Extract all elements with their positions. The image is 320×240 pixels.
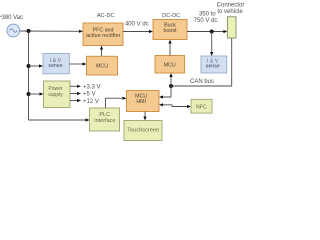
block NFC: [191, 99, 212, 113]
svg-text:active rectifier: active rectifier: [86, 33, 121, 39]
wire power supply +12V out: [70, 99, 81, 102]
svg-text:AC-DC: AC-DC: [97, 13, 115, 19]
block U2 MCU (AC-DC): [87, 56, 118, 75]
svg-text:400 V dc: 400 V dc: [125, 21, 149, 27]
svg-text:750 V dc: 750 V dc: [194, 18, 218, 24]
svg-text:CAN bus: CAN bus: [190, 79, 214, 85]
svg-text:supply: supply: [48, 92, 63, 98]
block S2 I & V sense (DC side): [201, 56, 227, 73]
wire power supply +3.3V out: [70, 85, 81, 88]
connector J1 to vehicle: [227, 17, 236, 38]
wire trunk to power supply left: [29, 92, 44, 95]
wire MCU HMI to touchscreen: [143, 112, 146, 121]
block PLC interface: [90, 108, 120, 131]
svg-text:MCU: MCU: [164, 62, 176, 68]
svg-text:MCU: MCU: [96, 63, 108, 69]
node C junction to power supply: [27, 92, 31, 96]
block U3 Buck boost: [153, 20, 187, 40]
wire PFC to buck boost: [123, 30, 153, 33]
AC source V1 380 Vac: [7, 24, 20, 37]
svg-text:to vehicle: to vehicle: [217, 9, 243, 15]
svg-text:+3.3 V: +3.3 V: [83, 85, 101, 91]
svg-text:sense: sense: [206, 63, 220, 69]
svg-text:+12 V: +12 V: [83, 99, 99, 105]
label Connector to vehicle: [217, 3, 245, 15]
wire connector to CAN bus: [171, 38, 232, 86]
wire CAN to MCU (DC-DC): [169, 73, 172, 86]
wire AC source to PFC: [20, 30, 83, 33]
svg-text:Connector: Connector: [217, 3, 245, 9]
svg-text:boost: boost: [164, 28, 177, 34]
node B junction to I&V sense: [27, 64, 31, 68]
block Touchscreen: [124, 121, 162, 141]
svg-text:+5 V: +5 V: [83, 92, 96, 98]
block U1 PFC and active rectifier: [83, 23, 123, 46]
node E CAN junction: [169, 84, 173, 88]
wire PLC interface to MCU HMI: [106, 97, 127, 108]
wire trunk to I&V sense left: [29, 64, 44, 67]
wire MCU to buck boost: [168, 40, 171, 56]
svg-text:DC-DC: DC-DC: [162, 13, 180, 19]
wire HV bus to I&V sense (DC side): [210, 32, 213, 57]
svg-text:350 to: 350 to: [199, 12, 216, 18]
wire MCU to PFC: [100, 46, 103, 57]
svg-text:HMI: HMI: [136, 99, 146, 105]
wire I&V sense to MCU: [69, 62, 86, 65]
block U4 MCU (DC-DC): [155, 56, 185, 74]
block U5 MCU HMI: [127, 91, 160, 112]
svg-text:sense: sense: [48, 63, 62, 69]
wire CAN to MCU HMI: [159, 86, 171, 99]
wire buck boost to connector: [187, 30, 227, 33]
svg-text:Touchscreen: Touchscreen: [127, 128, 159, 134]
label edge dash: [0, 16, 2, 17]
svg-text:NFC: NFC: [196, 104, 207, 110]
node D junction on HV bus: [210, 30, 214, 34]
block S1 I & V sense (AC side): [43, 54, 69, 74]
wire trunk to PLC interface: [29, 118, 90, 121]
wire MCU HMI to NFC (bidirectional): [159, 103, 191, 108]
label 350 to 750 V dc: [194, 12, 218, 24]
node A junction at AC output: [27, 29, 31, 33]
wire trunk vertical: [28, 31, 30, 120]
block PS1 Power supply: [44, 81, 71, 108]
wire power supply +5V out: [70, 92, 81, 95]
svg-text:380 Vac: 380 Vac: [2, 15, 24, 21]
svg-text:interface: interface: [94, 118, 115, 124]
